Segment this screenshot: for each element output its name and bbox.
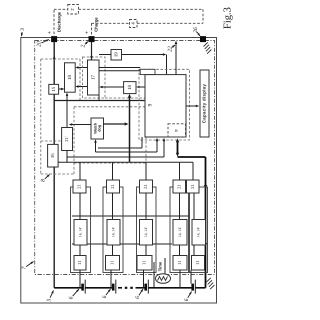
battery pack boundary 7 (dash-dot box) <box>35 41 215 275</box>
wire bus to 21 column 1 <box>79 162 81 180</box>
wire cell column 3 to bus <box>143 270 145 288</box>
cell monitor 14,14' column 5 <box>192 220 206 246</box>
column 2 module frame <box>103 187 123 273</box>
mid bus lower linking cell monitors <box>72 243 172 245</box>
wire down to timer <box>164 258 166 274</box>
balancer 21 column 4 <box>173 180 186 193</box>
column 5 module frame <box>190 187 208 273</box>
fuse 16 <box>48 144 59 167</box>
svg-text:6: 6 <box>102 295 108 298</box>
wire stub from 17 bottom to bus <box>98 95 100 101</box>
svg-text:Fig.3: Fig.3 <box>222 7 233 29</box>
memory 9' dashed <box>168 124 186 137</box>
wire watchdog right arrow to vertical bus <box>104 123 126 125</box>
svg-text:Capacity display: Capacity display <box>202 84 207 124</box>
sensor 11 column 1 <box>74 256 86 271</box>
wire 19 to controller 9 with arrow <box>122 54 164 56</box>
balancer 21 column 3 <box>140 180 153 193</box>
svg-text:16: 16 <box>50 153 56 158</box>
svg-text:6: 6 <box>135 296 141 299</box>
wire 9 to small 18 arrow <box>139 86 145 88</box>
svg-text:21: 21 <box>143 184 149 189</box>
sensor 11 column 3 <box>137 256 152 271</box>
svg-text:20: 20 <box>36 41 42 47</box>
svg-text:11: 11 <box>142 260 148 265</box>
chassis hatch at bottom right <box>207 278 211 282</box>
svg-text:Charge: Charge <box>94 17 99 32</box>
svg-text:Discharge: Discharge <box>57 11 62 32</box>
svg-text:21': 21' <box>64 136 69 142</box>
svg-text:18: 18 <box>67 75 73 80</box>
svg-text:3: 3 <box>20 28 26 32</box>
cell monitor 14,14' column 2 <box>107 220 120 246</box>
wire L from 9 bottom to watchdog <box>156 140 158 152</box>
svg-text:6: 6 <box>68 296 74 299</box>
svg-text:17: 17 <box>90 75 96 80</box>
wire cell column 5 to bus <box>190 270 192 284</box>
wire 17 to 18 upper arrow <box>78 67 87 69</box>
wire 21 to 14 column 4 <box>179 193 181 220</box>
minus bus segment 5 <box>195 287 205 289</box>
wire 22 from controller 9 to chassis line <box>175 44 177 75</box>
communication block 18 small <box>124 82 136 94</box>
minus bus segment 4 <box>148 287 192 289</box>
arrow down on chassis wire lower <box>204 243 207 247</box>
svg-text:21: 21 <box>77 184 83 189</box>
svg-text:14, 14': 14, 14' <box>78 227 82 237</box>
svg-text:+: + <box>47 31 53 34</box>
discharge terminal node 20 <box>52 37 57 42</box>
wire 14 to 11 column 4 <box>179 245 181 256</box>
controller 9 <box>145 75 186 137</box>
bold chassis wire right and down <box>178 156 206 158</box>
svg-text:19: 19 <box>113 52 119 57</box>
svg-text:5: 5 <box>46 298 52 301</box>
arrow down on chassis wire upper <box>204 185 207 189</box>
svg-text:+: + <box>84 31 90 34</box>
wire charge line from node 2 into 17 <box>91 42 93 60</box>
svg-text:11: 11 <box>177 260 183 265</box>
chassis hatch at terminal 26 <box>204 42 208 46</box>
column 3 module frame <box>137 187 157 273</box>
svg-text:2': 2' <box>70 7 75 10</box>
wire 14 to 11 column 2 <box>112 245 114 256</box>
svg-text:2: 2 <box>80 44 86 47</box>
voltage regulator 19 <box>111 50 122 61</box>
wire cell column 4 to bus <box>179 270 181 288</box>
svg-text:11: 11 <box>77 260 83 265</box>
external charger box 4 <box>130 20 138 28</box>
wire 21 to 14 column 1 <box>79 193 81 220</box>
wire bus to 21 column 3 <box>145 162 147 180</box>
mid bus upper linking cell monitors <box>72 215 190 217</box>
wires 17 to controller 9 tab <box>99 67 140 69</box>
dashed enclosure around watchdog <box>74 106 146 108</box>
balancer 21 column 2 <box>107 180 120 193</box>
wire cell column 1 to bus <box>79 270 81 288</box>
wire 17 to 19 <box>99 54 111 56</box>
wire 21 to 14 column 2 <box>112 193 114 220</box>
balancing block 21' <box>62 128 73 151</box>
cell monitor 14,14' column 4 <box>173 220 187 246</box>
minus bus segment 1 <box>54 287 82 289</box>
wire column 3 right to bus <box>153 262 155 288</box>
wire discharge line 16 down to minus bus <box>53 167 55 288</box>
svg-text:9': 9' <box>174 129 179 132</box>
wire small 18 to 17 arrow <box>102 86 124 88</box>
dashed external wire from charge terminal to box 4 <box>91 23 93 36</box>
dashed external wire from discharge terminal to plug 2' <box>53 10 55 36</box>
bus wire under 15 17 to controller 9 <box>54 100 145 102</box>
battery cell 2 <box>112 284 115 291</box>
svg-text:11: 11 <box>195 260 201 265</box>
battery cell 4 <box>191 284 194 291</box>
arrow up on discharge line <box>53 56 56 60</box>
minus bus ellipsis dashes <box>118 287 122 289</box>
wire 21 to 14 column 3 <box>145 193 147 220</box>
outer housing box 3 <box>21 38 217 304</box>
svg-text:9: 9 <box>148 103 154 106</box>
external device box 2' <box>68 5 79 15</box>
wire branch up into 18 bottom <box>66 96 68 101</box>
wire watchdog left arrow to 21' line <box>72 124 92 126</box>
battery cell 1 <box>81 284 84 291</box>
wire 15 to 18 with arrow <box>59 88 62 90</box>
chassis terminal node 26 <box>201 37 206 42</box>
svg-text:21: 21 <box>190 184 196 189</box>
dashed enclosure around controller 9 <box>139 69 190 140</box>
svg-text:dog: dog <box>98 125 102 132</box>
svg-text:14, 14': 14, 14' <box>111 227 115 237</box>
svg-text:8: 8 <box>40 179 46 182</box>
svg-text:26: 26 <box>193 27 199 33</box>
svg-text:21: 21 <box>110 184 116 189</box>
cell monitor 14,14' column 1 <box>74 220 87 246</box>
wire L from 9 bottom left <box>141 137 143 148</box>
charge controller 17 <box>88 60 100 95</box>
dashed enclosure around 17 <box>83 57 106 98</box>
capacity display <box>200 70 209 137</box>
wire 14 to 11 column 1 <box>79 245 81 256</box>
dashed external wire from 2' to terminal 26 <box>79 8 204 10</box>
dashed external wire from box 4 to terminal 26 <box>137 22 203 24</box>
sensor 11 column 4 <box>173 256 187 271</box>
minus bus segment 2 <box>85 287 112 289</box>
svg-text:14, 14': 14, 14' <box>144 227 148 237</box>
svg-text:6: 6 <box>184 298 190 301</box>
svg-text:18: 18 <box>127 85 133 90</box>
wire 21 to 14 column 5 <box>193 193 195 220</box>
wire cell column 2 to bus <box>110 270 112 288</box>
charge terminal node 2 <box>89 37 94 42</box>
wire bus to 21 column 4 <box>179 162 181 180</box>
wire up into watchdog bottom <box>95 142 97 152</box>
balancer 21 column 1 <box>73 180 86 193</box>
bold vertical bus from small 18 down to row bus <box>129 97 131 163</box>
svg-text:14, 14': 14, 14' <box>197 227 201 237</box>
wire 17 to 18 lower arrow <box>78 86 87 88</box>
wire 9 to capacity display arrow <box>186 105 196 107</box>
svg-text:21: 21 <box>176 184 182 189</box>
wire branch down from bus to 21' <box>66 101 68 128</box>
svg-text:11: 11 <box>110 260 116 265</box>
wire discharge line 15 to 16 <box>53 94 55 144</box>
bold chassis link from 9' double arrow <box>177 142 179 155</box>
battery cell 3 <box>144 284 147 291</box>
wire discharge line from node 20 down <box>53 42 55 85</box>
sensor 11 column 2 <box>106 256 120 271</box>
column 4 module frame <box>170 187 189 273</box>
wire 14 to 11 column 5 <box>193 245 195 256</box>
wire bus to 21 column 2 <box>112 162 114 180</box>
wire L from 9 bottom to 21' line <box>163 140 165 157</box>
sensor 11 column 5 <box>192 256 205 271</box>
watchdog block <box>91 118 104 139</box>
cell monitor 14,14' column 3 <box>140 220 153 246</box>
dashed enclosure around 15 and 18 <box>41 58 80 60</box>
wire 21' bottom to row bus <box>66 151 68 163</box>
row bus from 16 to cell columns <box>58 161 193 163</box>
svg-text:Time: Time <box>158 261 163 271</box>
current sensor 15 <box>49 84 59 94</box>
svg-text:15: 15 <box>51 86 57 91</box>
input tab on controller 9 <box>140 69 155 74</box>
timer oscillator <box>156 274 171 284</box>
balancer 21 column 5 <box>187 180 200 193</box>
svg-text:14, 14': 14, 14' <box>178 227 182 237</box>
monitor block 18 <box>65 63 76 92</box>
column 1 module frame <box>71 187 91 273</box>
wire 14 to 11 column 3 <box>145 245 147 256</box>
